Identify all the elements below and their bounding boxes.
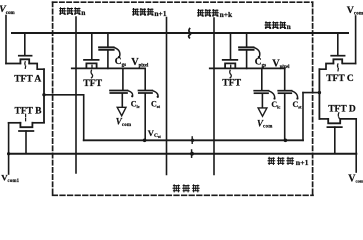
transistor TFT C bbox=[319, 33, 355, 71]
pixel TFT (right) bbox=[223, 33, 238, 78]
pixel TFT (left) bbox=[84, 33, 99, 78]
dashed active-area border top bbox=[53, 1, 313, 3]
junction mark on storage rail bbox=[191, 137, 194, 143]
svg-text:TFT C: TFT C bbox=[326, 74, 354, 84]
svg-text:Vcom: Vcom bbox=[347, 5, 363, 17]
data line n bbox=[75, 17, 77, 173]
Vcom terminal triangle (right) bbox=[258, 108, 267, 116]
Vcom top-left supply wire bbox=[5, 16, 7, 64]
svg-text:Cgs: Cgs bbox=[255, 58, 266, 69]
gate line n+1 bbox=[9, 153, 357, 155]
svg-text:Vcom: Vcom bbox=[116, 117, 132, 128]
pixel node wire (left) Vpixel bbox=[72, 67, 145, 69]
svg-text:Cgs: Cgs bbox=[115, 57, 126, 68]
svg-text:TFT A: TFT A bbox=[14, 74, 41, 84]
wire node A-B bbox=[43, 69, 45, 122]
Vcom top-right supply wire bbox=[355, 16, 357, 64]
transistor TFT A bbox=[6, 33, 44, 69]
svg-text:n+1: n+1 bbox=[154, 9, 166, 18]
capacitor Cst (left) bbox=[139, 68, 159, 140]
svg-text:n+1: n+1 bbox=[296, 158, 309, 167]
dashed active-area border bottom bbox=[53, 194, 313, 196]
data line n+k bbox=[213, 18, 215, 175]
svg-text:Vcom2: Vcom2 bbox=[348, 173, 363, 184]
junction mark on gate line n bbox=[189, 29, 191, 38]
svg-text:Vpixel: Vpixel bbox=[272, 58, 290, 70]
capacitor Cgs (left) bbox=[99, 33, 120, 68]
svg-text:TFT: TFT bbox=[83, 78, 102, 89]
junction C/D node bbox=[318, 91, 321, 94]
gate line n bbox=[12, 32, 348, 34]
svg-text:n: n bbox=[287, 22, 292, 31]
svg-text:TFT D: TFT D bbox=[328, 105, 356, 115]
label gate line n+1 bbox=[268, 157, 309, 167]
label active area 主动区 bbox=[173, 184, 200, 192]
svg-text:TFT B: TFT B bbox=[15, 106, 43, 116]
capacitor Clc (left) bbox=[110, 68, 133, 106]
junction A/B node bbox=[42, 93, 45, 96]
junction Cst right on rail bbox=[284, 139, 288, 143]
svg-text:Clc: Clc bbox=[131, 100, 140, 110]
svg-text:Vcom: Vcom bbox=[257, 118, 273, 129]
junction Cst left on rail bbox=[143, 139, 147, 143]
pixel node wire (right) Vpixel bbox=[210, 67, 285, 69]
svg-text:n+k: n+k bbox=[220, 10, 233, 19]
label data line n+1 bbox=[132, 8, 167, 18]
wire node C-D bbox=[318, 69, 320, 119]
capacitor Cst (right) bbox=[278, 68, 298, 140]
svg-text:Vcom1: Vcom1 bbox=[1, 172, 19, 184]
transistor TFT D bbox=[319, 113, 356, 153]
svg-text:Clc: Clc bbox=[271, 100, 280, 110]
svg-text:TFT: TFT bbox=[222, 78, 241, 89]
dashed active-area border left bbox=[52, 2, 54, 195]
Vcom2 bottom-right supply wire bbox=[355, 119, 357, 172]
junction gate n+1 left end bbox=[7, 152, 10, 155]
svg-text:Vcom: Vcom bbox=[0, 4, 15, 16]
data line n+1 bbox=[166, 18, 168, 175]
label data line n+k bbox=[197, 9, 233, 19]
wire storage rail riser left bbox=[83, 95, 85, 141]
Vcom1 bottom-left supply wire bbox=[8, 123, 10, 174]
svg-text:VCst: VCst bbox=[148, 128, 162, 139]
svg-text:Cst: Cst bbox=[151, 100, 161, 110]
label data line n bbox=[59, 7, 86, 17]
capacitor Cgs (right) bbox=[239, 33, 260, 68]
svg-text:Cst: Cst bbox=[293, 100, 303, 110]
dashed active-area border right bbox=[312, 2, 314, 195]
Vcom terminal triangle (left) bbox=[117, 107, 126, 116]
capacitor Clc (right) bbox=[254, 68, 275, 107]
transistor TFT B bbox=[9, 114, 44, 153]
junction mark on gate line n+1 bbox=[190, 150, 194, 157]
svg-text:n: n bbox=[81, 8, 86, 17]
wire A/B node to storage rail bbox=[44, 94, 84, 96]
wire storage rail riser right bbox=[302, 93, 304, 141]
label gate line n bbox=[265, 21, 292, 31]
wire C/D node to storage rail bbox=[303, 92, 319, 94]
svg-text:Vpixel: Vpixel bbox=[131, 57, 149, 69]
storage rail VCst bbox=[84, 139, 303, 141]
